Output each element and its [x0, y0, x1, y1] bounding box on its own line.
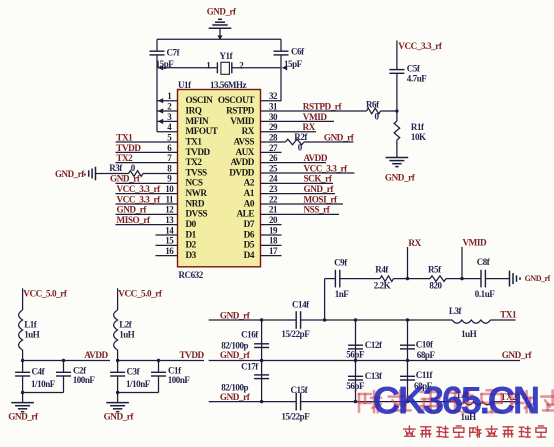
svg-text:C17f: C17f [241, 361, 259, 371]
svg-text:29: 29 [269, 122, 278, 132]
svg-text:GND_rf: GND_rf [117, 205, 148, 215]
svg-text:25: 25 [269, 163, 278, 173]
svg-text:GND_rf: GND_rf [502, 350, 533, 360]
svg-text:NCS: NCS [186, 178, 203, 188]
svg-text:GND_rf: GND_rf [55, 169, 85, 179]
svg-text:TVDD: TVDD [186, 147, 211, 157]
svg-text:0.1uF: 0.1uF [475, 289, 495, 299]
svg-text:100nF: 100nF [168, 375, 191, 385]
svg-text:C7f: C7f [167, 48, 181, 58]
svg-text:C15f: C15f [291, 385, 309, 395]
svg-text:13.56MHz: 13.56MHz [210, 80, 247, 90]
svg-text:OSCIN: OSCIN [186, 95, 214, 105]
svg-text:GND_rf: GND_rf [525, 274, 551, 283]
svg-text:31: 31 [269, 101, 278, 111]
svg-text:TX1: TX1 [186, 136, 203, 146]
svg-text:DVDD: DVDD [229, 167, 255, 177]
svg-text:DVSS: DVSS [186, 209, 208, 219]
svg-text:12: 12 [165, 205, 174, 215]
svg-text:19: 19 [269, 225, 278, 235]
svg-text:R4f: R4f [375, 264, 389, 274]
svg-text:ALE: ALE [236, 209, 254, 219]
svg-text:R6f: R6f [366, 99, 380, 109]
svg-text:14: 14 [165, 225, 174, 235]
svg-text:VCC_3.3_rf: VCC_3.3_rf [398, 41, 443, 51]
svg-text:C3f: C3f [127, 366, 141, 376]
svg-text:R1f: R1f [411, 122, 425, 132]
svg-text:TVDD: TVDD [180, 350, 205, 360]
svg-text:28: 28 [269, 132, 278, 142]
svg-text:MOSI_rf: MOSI_rf [304, 194, 338, 204]
svg-text:GND_rf: GND_rf [104, 412, 135, 422]
svg-text:D6: D6 [244, 229, 255, 239]
svg-text:68pF: 68pF [417, 350, 436, 360]
svg-text:NSS_rf: NSS_rf [304, 205, 331, 215]
svg-text:R5f: R5f [428, 264, 442, 274]
svg-text:C14f: C14f [292, 300, 310, 310]
svg-text:D3: D3 [186, 250, 197, 260]
svg-text:D7: D7 [244, 219, 255, 229]
svg-text:13: 13 [165, 215, 174, 225]
svg-text:26: 26 [269, 153, 278, 163]
svg-text:6: 6 [167, 143, 172, 153]
svg-text:AVDD: AVDD [304, 153, 328, 163]
svg-text:AVDD: AVDD [84, 350, 108, 360]
svg-text:C2f: C2f [73, 365, 87, 375]
svg-text:1: 1 [167, 91, 172, 101]
svg-text:11: 11 [165, 194, 174, 204]
svg-text:22: 22 [269, 194, 278, 204]
svg-text:AVSS: AVSS [233, 136, 254, 146]
svg-text:SCK_rf: SCK_rf [304, 174, 333, 184]
svg-text:2: 2 [167, 101, 172, 111]
svg-text:15: 15 [165, 236, 174, 246]
svg-text:82/100p: 82/100p [221, 383, 248, 393]
svg-text:TX1: TX1 [500, 310, 517, 320]
svg-text:L1f: L1f [24, 320, 38, 330]
svg-text:16: 16 [165, 246, 174, 256]
svg-text:C9f: C9f [334, 258, 348, 268]
svg-text:NWR: NWR [186, 188, 208, 198]
svg-text:5: 5 [167, 132, 172, 142]
svg-text:D2: D2 [186, 240, 197, 250]
svg-text:1/10nF: 1/10nF [31, 379, 56, 389]
svg-text:C1f: C1f [168, 365, 182, 375]
svg-text:GND_rf: GND_rf [220, 310, 251, 320]
svg-text:C12f: C12f [365, 340, 383, 350]
svg-text:10: 10 [165, 184, 174, 194]
svg-text:TX2: TX2 [116, 153, 133, 163]
svg-text:15/22pF: 15/22pF [281, 329, 310, 339]
svg-text:VCC_5.0_rf: VCC_5.0_rf [23, 289, 68, 299]
svg-text:TVSS: TVSS [186, 167, 208, 177]
svg-text:D1: D1 [186, 229, 197, 239]
svg-text:MISO_rf: MISO_rf [117, 215, 151, 225]
svg-text:C8f: C8f [477, 257, 491, 267]
svg-text:RC632: RC632 [179, 270, 204, 280]
svg-text:9: 9 [167, 174, 172, 184]
svg-text:VCC_5.0_rf: VCC_5.0_rf [118, 289, 163, 299]
svg-text:3: 3 [167, 112, 172, 122]
svg-text:R2f: R2f [294, 132, 308, 142]
svg-text:L2f: L2f [119, 320, 133, 330]
svg-text:NRD: NRD [186, 198, 205, 208]
svg-text:D0: D0 [186, 219, 197, 229]
svg-text:20: 20 [269, 215, 278, 225]
svg-text:RX: RX [303, 122, 316, 132]
svg-text:15/22pF: 15/22pF [281, 412, 310, 422]
svg-text:A1: A1 [244, 188, 255, 198]
svg-text:GND_rf: GND_rf [324, 132, 355, 142]
svg-text:A2: A2 [244, 178, 255, 188]
svg-text:MFIN: MFIN [186, 116, 210, 126]
svg-text:GND_rf: GND_rf [8, 412, 39, 422]
svg-text:7: 7 [167, 153, 172, 163]
svg-text:VCC_3.3_rf: VCC_3.3_rf [304, 163, 349, 173]
svg-text:27: 27 [269, 143, 278, 153]
svg-text:CK365.CN: CK365.CN [373, 380, 539, 423]
svg-text:AUX: AUX [235, 147, 254, 157]
svg-text:1nF: 1nF [335, 289, 350, 299]
svg-text:C6f: C6f [291, 47, 305, 57]
svg-text:C16f: C16f [241, 329, 259, 339]
svg-text:RSTPD: RSTPD [226, 105, 255, 115]
svg-text:2: 2 [239, 60, 244, 70]
svg-text:C11f: C11f [416, 370, 434, 380]
svg-text:TX1: TX1 [116, 132, 133, 142]
svg-text:U1f: U1f [178, 80, 192, 90]
svg-text:23: 23 [269, 184, 278, 194]
svg-text:GND_rf: GND_rf [220, 350, 251, 360]
svg-text:L3f: L3f [449, 306, 463, 316]
svg-text:1uH: 1uH [24, 330, 40, 340]
svg-text:GND_rf: GND_rf [304, 184, 335, 194]
svg-text:AVDD: AVDD [230, 157, 254, 167]
svg-text:1/10nF: 1/10nF [126, 379, 151, 389]
svg-text:1: 1 [206, 60, 211, 70]
svg-text:17: 17 [269, 246, 278, 256]
svg-text:MFOUT: MFOUT [186, 126, 218, 136]
svg-text:GND_rf: GND_rf [220, 392, 251, 402]
svg-text:56pF: 56pF [346, 381, 365, 391]
svg-text:Y1f: Y1f [220, 51, 234, 61]
svg-text:RSTPD_rf: RSTPD_rf [303, 101, 343, 111]
svg-text:1uH: 1uH [461, 329, 477, 339]
svg-text:24: 24 [269, 174, 278, 184]
svg-text:4: 4 [167, 122, 172, 132]
svg-text:4.7uF: 4.7uF [407, 73, 427, 83]
svg-text:C4f: C4f [32, 366, 46, 376]
svg-text:OSCOUT: OSCOUT [218, 95, 254, 105]
svg-text:VCC_3.3_rf: VCC_3.3_rf [117, 194, 162, 204]
svg-text:TVDD: TVDD [116, 143, 141, 153]
svg-text:1uH: 1uH [119, 330, 135, 340]
svg-text:D5: D5 [244, 240, 255, 250]
svg-text:RX: RX [242, 126, 255, 136]
svg-text:RX: RX [408, 238, 421, 248]
svg-text:82/100p: 82/100p [221, 340, 248, 350]
svg-text:56pF: 56pF [346, 350, 365, 360]
svg-text:820: 820 [429, 281, 442, 291]
svg-text:2.2K: 2.2K [374, 281, 391, 291]
svg-text:32: 32 [269, 91, 278, 101]
svg-text:GND_rf: GND_rf [207, 7, 237, 17]
svg-text:VCC_3.3_rf: VCC_3.3_rf [117, 184, 162, 194]
svg-text:R3f: R3f [109, 163, 123, 173]
svg-text:30: 30 [269, 112, 278, 122]
svg-text:8: 8 [167, 163, 172, 173]
svg-text:C10f: C10f [416, 339, 434, 349]
svg-text:10K: 10K [411, 132, 426, 142]
svg-text:VMID: VMID [463, 238, 488, 248]
svg-text:0: 0 [131, 163, 136, 173]
svg-text:100nF: 100nF [73, 375, 96, 385]
svg-text:TX2: TX2 [186, 157, 203, 167]
svg-text:VMID: VMID [230, 116, 255, 126]
svg-text:C5f: C5f [407, 64, 421, 74]
svg-text:VMID: VMID [303, 112, 328, 122]
svg-text:18: 18 [269, 236, 278, 246]
svg-text:21: 21 [269, 205, 278, 215]
svg-text:GND_rf: GND_rf [110, 174, 141, 184]
svg-text:IRQ: IRQ [186, 105, 202, 115]
svg-text:A0: A0 [244, 198, 255, 208]
svg-text:D4: D4 [244, 250, 255, 260]
svg-text:GND_rf: GND_rf [385, 173, 416, 183]
